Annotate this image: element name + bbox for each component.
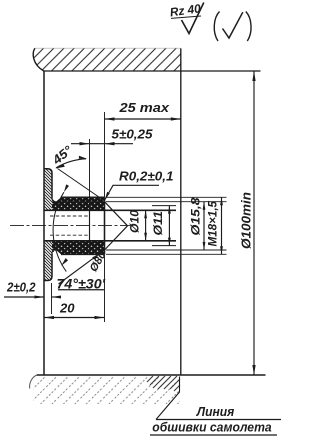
thread root bottom line bbox=[52, 250, 105, 254]
extension lines for Ø15,8 / M18 bbox=[106, 197, 227, 254]
svg-text:обшивки самолета: обшивки самолета bbox=[152, 421, 271, 435]
dimension 20 bbox=[44, 302, 105, 320]
centerline (axis) bbox=[10, 225, 133, 227]
dimension Ø11 bbox=[152, 206, 176, 246]
thread crest top line bbox=[61, 196, 105, 198]
boss flange upper half (hatched) bbox=[44, 169, 105, 211]
74° dimension arc (centered at cone apex) bbox=[53, 192, 66, 271]
dimension 45° with arc arrows bbox=[49, 142, 87, 168]
45° chamfer construction line bbox=[58, 169, 105, 201]
extension line: end face up bbox=[104, 112, 106, 197]
svg-text:2±0,2: 2±0,2 bbox=[6, 281, 35, 295]
bore bottom line bbox=[44, 240, 176, 242]
tube lower wall band (dark section) bbox=[52, 241, 105, 255]
skin label leader bbox=[156, 377, 180, 420]
dimension Ø100min bbox=[239, 71, 256, 375]
tube upper wall band (dark section) bbox=[52, 197, 105, 210]
svg-text:Ø15,8: Ø15,8 bbox=[189, 197, 203, 235]
svg-text:Линия: Линия bbox=[196, 405, 235, 419]
svg-text:Ø11: Ø11 bbox=[153, 211, 165, 236]
dimension 2±0,2 bbox=[4, 281, 61, 299]
top edge line of bore / extension of upper wall bottom to Ø100 dimension bbox=[44, 70, 261, 72]
thread crest bottom line bbox=[61, 253, 105, 255]
svg-text:20: 20 bbox=[59, 302, 75, 316]
right break (cut) line bbox=[180, 48, 182, 375]
thread end line bbox=[89, 197, 91, 254]
leader R0,2±0,1 bbox=[105, 170, 174, 201]
extension line: thread end up bbox=[89, 139, 91, 197]
boss flange lower half (hatched) bbox=[44, 241, 105, 281]
svg-text:Ø10: Ø10 bbox=[130, 209, 142, 233]
extension line: flange face down bbox=[51, 283, 53, 314]
underline 1 bbox=[156, 419, 281, 421]
svg-text:25 max: 25 max bbox=[118, 100, 169, 115]
thread root top line bbox=[52, 199, 105, 202]
default roughness mark (checkmark in parentheses) bbox=[214, 12, 251, 42]
svg-text:R0,2±0,1: R0,2±0,1 bbox=[119, 170, 174, 184]
bore top line bbox=[44, 209, 176, 211]
hidden (dashed) bore line bottom bbox=[50, 234, 90, 236]
extension line: end face down bbox=[104, 255, 106, 323]
lower-left corner arc of skin bbox=[30, 375, 37, 389]
left wall outline line bbox=[43, 71, 45, 375]
darker hatch patch right of lower wall bbox=[147, 376, 180, 391]
underline 2 bbox=[150, 434, 277, 436]
end face of tube bbox=[104, 197, 106, 254]
svg-text:74°±30': 74°±30' bbox=[57, 276, 106, 292]
upper wall section (hatched bar) bbox=[33, 48, 181, 71]
cone line B (lower, extended to 74° dimension) bbox=[105, 226, 128, 250]
skin line (bottom surface) bbox=[37, 374, 266, 376]
dimension M18×1,5 bbox=[208, 197, 223, 254]
svg-text:5±0,25: 5±0,25 bbox=[112, 128, 154, 142]
cone line A (upper, extended past apex) bbox=[105, 202, 128, 226]
roughness symbol Rz40 bbox=[169, 1, 204, 33]
svg-text:Ø100min: Ø100min bbox=[239, 192, 254, 249]
dimension Ø15,8 bbox=[189, 197, 206, 250]
dimension Ø10 bbox=[130, 209, 148, 240]
hidden (dashed) bore line top bbox=[50, 215, 90, 217]
dimension 25 max bbox=[105, 100, 181, 121]
lower wall faint hatching bbox=[33, 376, 180, 404]
dimension 5±0,25 bbox=[71, 128, 154, 146]
svg-text:M18×1,5: M18×1,5 bbox=[208, 200, 220, 246]
dimension 74°±30' with leader bbox=[57, 254, 106, 292]
